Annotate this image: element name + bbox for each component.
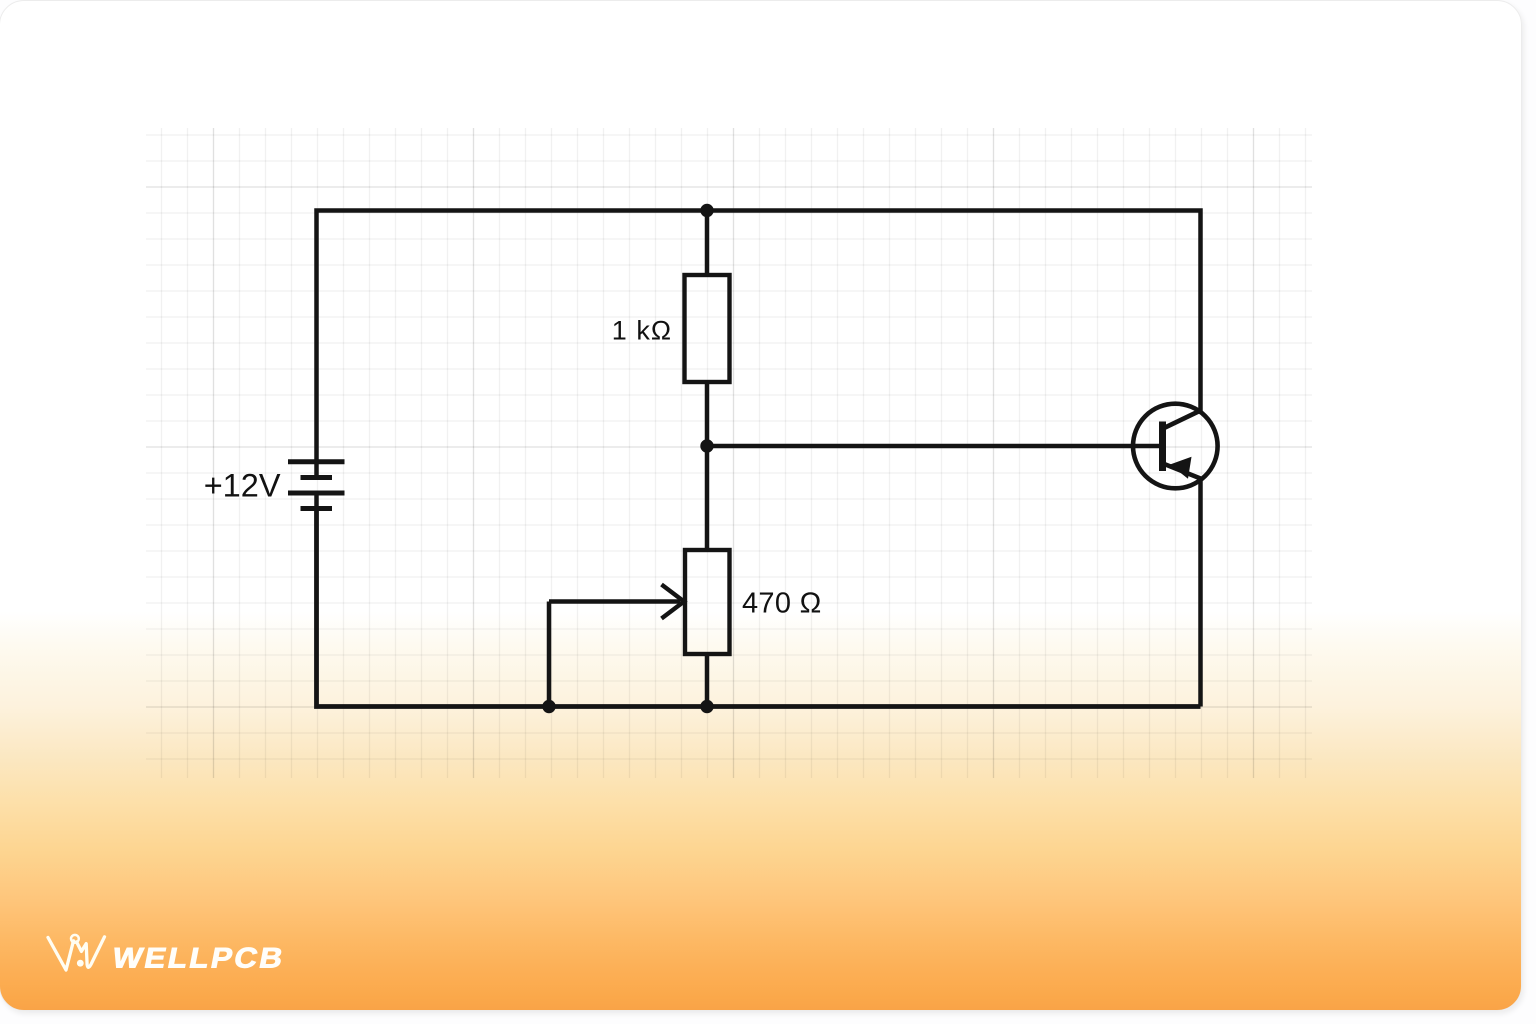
logo W mark pad dot [77, 960, 84, 967]
logo W mark via ring [71, 935, 79, 943]
junction node base divider [700, 439, 713, 452]
transistor Q1 base bar [1159, 422, 1166, 472]
wire V+ top rail [317, 211, 1201, 465]
battery B1 plate long top [288, 459, 345, 464]
battery B1 plate short bottom [301, 506, 333, 511]
transistor Q1 emitter diagonal [1163, 464, 1201, 479]
wire resistor top lead [705, 211, 710, 276]
wire potentiometer top lead [705, 446, 710, 550]
svg-text:+12V: +12V [204, 468, 281, 504]
WellPCB logo [44, 926, 364, 981]
junction node wiper ground [542, 700, 555, 713]
svg-text:WELLPCB: WELLPCB [110, 943, 288, 974]
transistor Q1 collector diagonal [1163, 411, 1201, 429]
battery B1 internal stub bottom cell [314, 493, 319, 509]
battery B1 internal stub top cell [314, 462, 319, 478]
svg-text:1 kΩ: 1 kΩ [612, 316, 672, 346]
wire potentiometer bottom lead [705, 654, 710, 707]
wire resistor bottom lead [705, 382, 710, 446]
potentiometer R2 body [685, 550, 730, 654]
logo W mark left V [48, 938, 74, 971]
wiper arrowhead [662, 585, 685, 619]
transistor Q1 emitter arrow PNP [1170, 457, 1192, 479]
wire battery negative to bottom rail [317, 509, 1201, 707]
transistor Q1 body circle [1133, 404, 1218, 489]
resistor R1 1k body [685, 275, 730, 382]
wire bottom rail right segment [1198, 477, 1203, 707]
junction node pot ground [700, 700, 713, 713]
logo W mark zigzag [77, 937, 105, 968]
wire base node to transistor [707, 444, 1162, 449]
wire wiper horizontal [549, 599, 680, 604]
battery B1 plate long bottom [288, 491, 345, 496]
battery B1 plate short top [301, 475, 333, 480]
wire wiper to bottom rail [547, 602, 552, 707]
svg-text:470 Ω: 470 Ω [742, 588, 822, 620]
junction node top rail [700, 204, 713, 217]
